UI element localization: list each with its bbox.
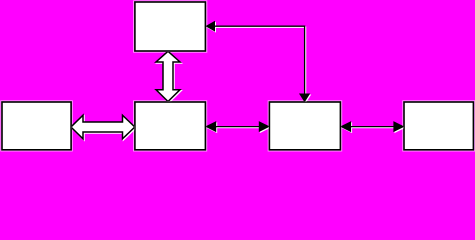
double arrow box2-box3, emboss white + black <box>206 122 270 132</box>
elbow connector (top box to box3), emboss white + black <box>206 22 310 103</box>
halo box bottom-right <box>402 100 475 151</box>
halo box bottom-left <box>0 100 73 151</box>
box bottom-right <box>404 102 473 150</box>
double arrow box3-box4, emboss white + black <box>341 122 404 132</box>
block arrow horizontal (box1 to box2), emboss white + black outline <box>71 115 136 140</box>
halo box bottom-center <box>133 100 207 151</box>
box top (process block) <box>135 2 206 51</box>
halo box top <box>133 0 207 52</box>
box bottom-center <box>135 102 206 150</box>
box bottom-right-center <box>269 102 340 150</box>
box bottom-left <box>2 102 71 150</box>
halo box bottom-right-center <box>268 100 343 151</box>
block arrow vertical (top box to box2), emboss white + black outline <box>156 51 181 102</box>
